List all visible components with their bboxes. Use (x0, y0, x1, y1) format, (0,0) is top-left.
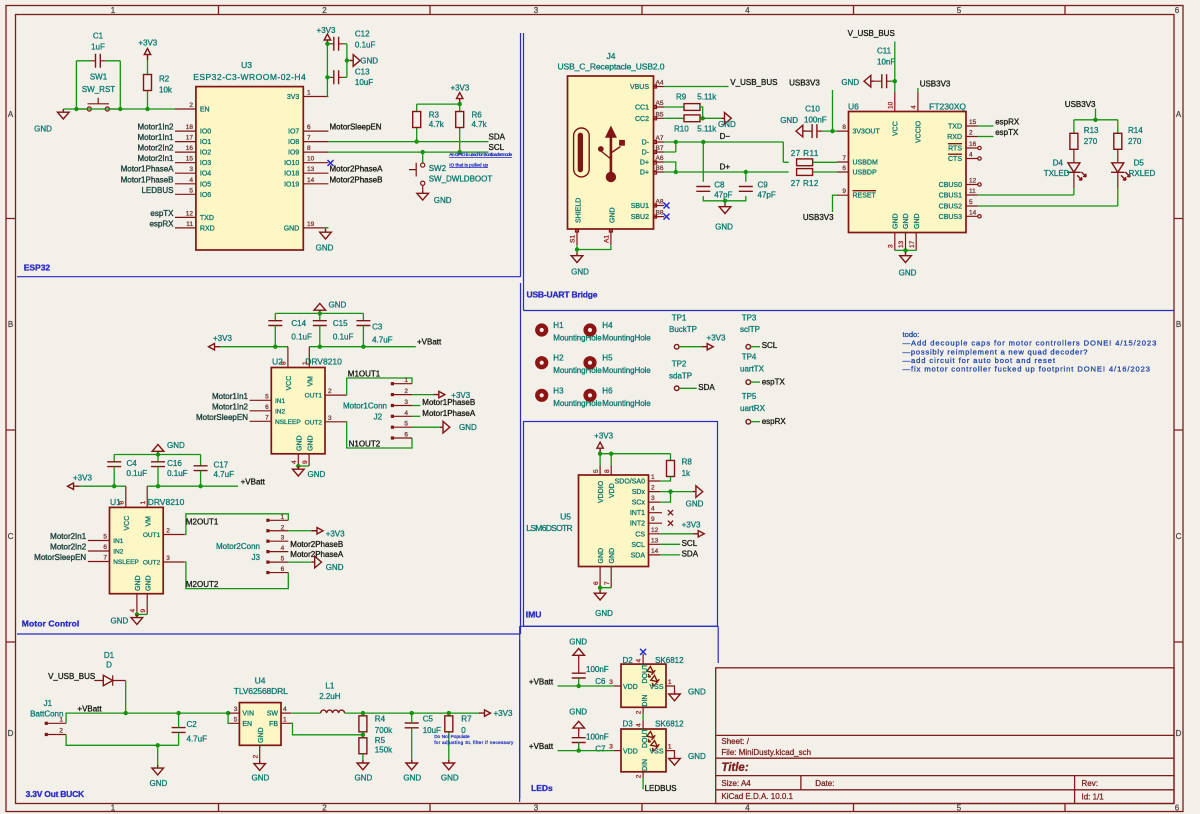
svg-text:2: 2 (281, 524, 285, 531)
junction (447, 711, 451, 715)
svg-text:10uF: 10uF (355, 78, 373, 87)
switch SW1 SW_RST (76, 73, 120, 112)
svg-text:VM: VM (308, 376, 315, 387)
svg-text:IN1: IN1 (113, 538, 124, 545)
svg-text:Motor2In1: Motor2In1 (50, 532, 87, 541)
svg-text:R9: R9 (676, 93, 687, 102)
mounting hole H5 (583, 356, 596, 369)
svg-text:16: 16 (969, 141, 977, 148)
ground U5 (594, 590, 606, 600)
svg-text:19: 19 (307, 221, 315, 228)
svg-text:SDA: SDA (698, 383, 715, 392)
svg-text:J4: J4 (607, 51, 616, 61)
mounting hole H6 (583, 389, 596, 402)
svg-text:C: C (8, 532, 14, 541)
LED D5 RXLED (1111, 149, 1155, 206)
svg-text:2: 2 (636, 710, 643, 714)
svg-text:+VBatt: +VBatt (529, 678, 554, 687)
svg-text:D−: D− (720, 132, 731, 141)
capacitor C7 100nF (572, 731, 609, 753)
junction (458, 102, 462, 106)
svg-text:GND: GND (252, 773, 270, 782)
no-connect INT2 (668, 521, 673, 526)
svg-text:J1: J1 (44, 699, 53, 708)
resistor R7 0 (445, 713, 472, 760)
svg-text:D-: D- (642, 140, 650, 147)
svg-text:R2: R2 (159, 75, 170, 84)
wire +3V3 output rail (345, 712, 479, 714)
U2 bottom pins (298, 454, 309, 466)
svg-text:DRV8210: DRV8210 (148, 497, 185, 507)
svg-text:INT1: INT1 (630, 510, 645, 517)
svg-text:R4: R4 (375, 714, 386, 723)
svg-text:+3V3: +3V3 (326, 530, 345, 539)
svg-text:3.3V Out BUCK: 3.3V Out BUCK (26, 789, 85, 799)
svg-text:espTX: espTX (995, 128, 1019, 137)
wire USB3V3 VCCIO (917, 88, 919, 92)
test point TP4 uartTX (740, 353, 765, 385)
svg-text:Motor1In1: Motor1In1 (137, 133, 174, 142)
svg-text:VCC: VCC (124, 516, 131, 531)
svg-text:GND: GND (111, 617, 129, 626)
junction (701, 116, 705, 120)
U4 bottom pin GND (259, 745, 261, 760)
junction (893, 79, 897, 83)
wire U5 gnd (600, 588, 611, 590)
resistor R14 270 (1114, 126, 1143, 149)
svg-text:OUT2: OUT2 (143, 560, 161, 567)
IC U3 ESP32-C3-WROOM-02-H4 (193, 60, 306, 250)
ground D3 (669, 755, 681, 765)
capacitor C16 0.1uF (151, 459, 188, 486)
LED D4 TXLED (1044, 149, 1086, 195)
svg-text:IO18: IO18 (284, 171, 299, 178)
svg-text:SCL: SCL (489, 143, 505, 152)
svg-text:MountingHole: MountingHole (553, 366, 602, 375)
svg-text:1: 1 (281, 514, 285, 521)
svg-text:GND: GND (258, 727, 265, 743)
svg-text:IN2: IN2 (275, 408, 286, 415)
svg-text:5: 5 (189, 187, 193, 194)
resistor R8 1k (660, 458, 692, 481)
svg-text:H6: H6 (602, 386, 613, 395)
svg-text:Motor2Conn: Motor2Conn (216, 542, 260, 551)
ground SDx (693, 486, 703, 498)
svg-text:4: 4 (911, 105, 918, 109)
svg-text:27 R11: 27 R11 (791, 149, 819, 158)
svg-text:Motor2In2: Motor2In2 (137, 144, 174, 153)
junction (674, 170, 678, 174)
svg-text:FB: FB (269, 721, 278, 728)
svg-text:GND: GND (841, 78, 859, 87)
IC U4 TLV62568DRL (234, 676, 288, 746)
svg-text:TP1: TP1 (672, 314, 687, 323)
svg-text:1: 1 (111, 804, 116, 813)
wire CBUS1 to D4 (978, 194, 1074, 196)
junction (318, 345, 322, 349)
svg-text:GND: GND (595, 609, 613, 618)
svg-text:VDD: VDD (623, 749, 638, 756)
J4 pin names (630, 84, 650, 221)
D2 VSS pin (666, 686, 675, 691)
U1 bottom pins (137, 594, 147, 615)
wire CC2 (664, 117, 684, 119)
wire gnd rail U1 (114, 455, 200, 466)
svg-text:1uF: 1uF (91, 43, 105, 52)
svg-text:DOUT: DOUT (642, 727, 649, 748)
svg-text:C17: C17 (214, 461, 229, 470)
svg-text:1: 1 (140, 501, 147, 505)
U6 right pins (966, 126, 978, 216)
svg-text:1: 1 (404, 377, 408, 384)
svg-text:SW_DWLDBOOT: SW_DWLDBOOT (429, 174, 493, 183)
svg-text:5: 5 (404, 421, 408, 428)
svg-text:9: 9 (651, 516, 655, 523)
svg-text:TXD: TXD (948, 124, 962, 131)
svg-text:10: 10 (307, 156, 315, 163)
svg-text:GND: GND (598, 548, 605, 564)
svg-text:10nF: 10nF (877, 58, 895, 67)
wire D1 to rail (125, 681, 127, 714)
svg-text:R3: R3 (429, 111, 440, 120)
svg-text:Rev:: Rev: (1082, 779, 1098, 788)
svg-text:Motor Control: Motor Control (22, 619, 80, 629)
svg-text:ESP32: ESP32 (24, 263, 51, 273)
svg-text:D+: D+ (720, 163, 731, 172)
svg-text:VIN: VIN (242, 711, 254, 718)
svg-text:13: 13 (307, 166, 315, 173)
junction (198, 484, 202, 488)
svg-text:+3V3: +3V3 (73, 473, 92, 482)
svg-text:1k: 1k (682, 469, 691, 478)
svg-text:14: 14 (651, 548, 659, 555)
svg-text:GND: GND (167, 441, 185, 450)
svg-text:2: 2 (322, 804, 327, 813)
svg-text:espRX: espRX (762, 417, 787, 426)
svg-text:14: 14 (969, 209, 977, 216)
ground U1 (131, 614, 143, 624)
svg-text:12: 12 (651, 527, 659, 534)
junction (421, 150, 425, 154)
junction (135, 612, 139, 616)
svg-text:TP3: TP3 (742, 314, 757, 323)
svg-text:2: 2 (189, 102, 193, 109)
svg-text:todo:: todo: (903, 330, 920, 339)
svg-text:6: 6 (1175, 804, 1180, 813)
svg-text:EN: EN (200, 107, 210, 114)
svg-text:SHIELD: SHIELD (576, 198, 583, 223)
svg-text:4: 4 (745, 804, 750, 813)
U2 left pins (250, 400, 272, 421)
svg-text:6: 6 (307, 124, 311, 131)
U1 left pins (88, 541, 110, 562)
svg-text:uartTX: uartTX (740, 365, 765, 374)
wire LEDBUS (642, 778, 644, 790)
wire M2OUT1 (184, 514, 288, 535)
wire D2 DIN to D3 DOUT (642, 714, 644, 721)
ground C7 (573, 721, 585, 731)
svg-text:SW2: SW2 (429, 164, 447, 173)
capacitor C17 4.7uF (194, 461, 234, 487)
wire gnd rail (275, 313, 363, 320)
svg-text:8: 8 (604, 469, 611, 473)
svg-text:RXLED: RXLED (1129, 169, 1156, 178)
junction (345, 58, 349, 62)
svg-text:C6: C6 (595, 677, 606, 686)
junction (156, 743, 160, 747)
svg-text:2: 2 (636, 774, 643, 778)
wire J3 pin2 +3V3 (288, 530, 311, 532)
connector J1 BattConn (30, 699, 66, 736)
svg-text:9: 9 (842, 188, 846, 195)
svg-text:CTS: CTS (948, 156, 962, 163)
svg-text:4: 4 (969, 152, 973, 159)
section box 3.3V Out BUCK (519, 640, 521, 802)
ground C5 (406, 760, 418, 770)
ground C6 (573, 649, 585, 659)
svg-text:R14: R14 (1128, 126, 1143, 135)
svg-text:4: 4 (291, 460, 298, 464)
svg-text:RTS: RTS (948, 146, 962, 153)
note tiny blue text (449, 152, 512, 167)
wire SDA (660, 554, 680, 556)
wire J2 pin3 (412, 405, 420, 407)
svg-text:5: 5 (969, 199, 973, 206)
ground C11 (864, 75, 874, 87)
svg-text:SW1: SW1 (90, 73, 108, 82)
power +3V3 (209, 344, 221, 350)
wire CC1 (664, 106, 684, 108)
note tiny blue text (434, 734, 514, 745)
wire EN net (63, 108, 175, 110)
svg-text:17: 17 (186, 135, 194, 142)
svg-text:5.11k: 5.11k (697, 93, 717, 102)
wire pullup rail (417, 104, 460, 152)
svg-text:H2: H2 (553, 354, 564, 363)
svg-text:IO10: IO10 (284, 160, 299, 167)
no-connect IO10 (328, 160, 334, 166)
svg-text:IO8: IO8 (288, 139, 299, 146)
U4 right pins (281, 713, 291, 723)
junction (325, 42, 329, 46)
svg-text:KiCad E.D.A. 10.0.1: KiCad E.D.A. 10.0.1 (721, 792, 793, 801)
svg-text:GND: GND (610, 207, 617, 223)
junction (903, 248, 907, 252)
svg-text:GND: GND (441, 773, 459, 782)
svg-text:7: 7 (604, 581, 611, 585)
svg-text:R5: R5 (375, 736, 386, 745)
U5 right pins (649, 481, 663, 555)
svg-text:OUT1: OUT1 (305, 393, 323, 400)
svg-text:7: 7 (842, 155, 846, 162)
wire +VBatt to VM U1 (147, 485, 238, 487)
ground R7 (443, 760, 455, 770)
svg-text:MountingHole: MountingHole (602, 366, 651, 375)
svg-text:IO0: IO0 (200, 129, 211, 136)
svg-text:Motor1PhaseB: Motor1PhaseB (121, 175, 174, 184)
svg-text:2: 2 (322, 6, 327, 15)
svg-text:C13: C13 (355, 67, 370, 76)
junction (415, 139, 419, 143)
svg-text:USB3V3: USB3V3 (789, 79, 820, 88)
svg-text:12: 12 (969, 178, 977, 185)
svg-text:TXD: TXD (200, 215, 214, 222)
power +3V3 (597, 442, 603, 454)
junction (325, 75, 329, 79)
svg-text:C12: C12 (355, 30, 370, 39)
svg-text:CC1: CC1 (635, 105, 649, 112)
svg-text:B: B (8, 320, 13, 329)
svg-text:LEDBUS: LEDBUS (645, 784, 677, 793)
svg-text:3: 3 (651, 495, 655, 502)
wire espRX (978, 125, 994, 127)
svg-text:2.2uH: 2.2uH (319, 692, 341, 701)
D3 DIN pin (642, 772, 644, 778)
svg-text:C2: C2 (187, 720, 198, 729)
svg-text:3: 3 (534, 6, 539, 15)
resistor R4 700k (359, 713, 393, 735)
connector J3 Motor2Conn (216, 514, 288, 574)
svg-text:VM: VM (146, 516, 153, 527)
svg-text:OUT1: OUT1 (143, 532, 161, 539)
svg-text:GND: GND (686, 500, 704, 509)
svg-text:R10: R10 (674, 125, 689, 134)
wire M2OUT2 (184, 562, 288, 589)
junction (577, 684, 581, 688)
svg-text:USB_C_Receptacle_USB2.0: USB_C_Receptacle_USB2.0 (558, 62, 665, 72)
svg-text:27 R12: 27 R12 (791, 179, 819, 188)
capacitor C2 4.7uF (172, 713, 207, 745)
wire espTX (978, 136, 994, 138)
svg-text:CC2: CC2 (635, 116, 649, 123)
svg-text:VBUS: VBUS (630, 84, 649, 91)
svg-text:47pF: 47pF (714, 190, 732, 199)
junction (575, 247, 579, 251)
svg-text:47pF: 47pF (758, 190, 776, 199)
svg-text:10k: 10k (159, 86, 173, 95)
resistor R11 27 (791, 149, 837, 166)
wire C1/SW1 loop (76, 61, 120, 109)
svg-text:Motor1Conn: Motor1Conn (343, 402, 387, 411)
svg-text:4.7uF: 4.7uF (187, 735, 208, 744)
wire J2 pin2 +3V3 (412, 394, 433, 396)
svg-text:C4: C4 (127, 459, 138, 468)
IC U5 LSM6DSOTR (526, 475, 648, 567)
svg-text:GND: GND (715, 223, 733, 232)
svg-text:GND: GND (329, 301, 347, 310)
svg-text:USBDM: USBDM (853, 160, 878, 167)
svg-text:7: 7 (103, 555, 107, 562)
svg-text:4: 4 (636, 659, 643, 663)
svg-text:GND: GND (146, 575, 153, 591)
svg-text:Motor2In2: Motor2In2 (50, 543, 87, 552)
wire J2 pin5 gnd (412, 426, 440, 428)
svg-text:700k: 700k (375, 726, 393, 735)
section box IMU (524, 422, 718, 627)
svg-text:D+: D+ (640, 160, 649, 167)
junction (118, 107, 122, 111)
svg-text:TXLED: TXLED (1044, 169, 1070, 178)
svg-text:MountingHole: MountingHole (553, 399, 602, 408)
svg-text:C9: C9 (758, 180, 769, 189)
svg-text:GND: GND (34, 125, 52, 134)
svg-text:4.7k: 4.7k (429, 120, 445, 129)
capacitor C5 10uF (405, 713, 441, 760)
capacitor C6 100nF (572, 659, 609, 687)
svg-text:FT230XQ: FT230XQ (929, 102, 966, 112)
section box USB-UART Bridge (524, 33, 1175, 311)
D3 VDD pin (614, 750, 621, 752)
no-connect SBU2 (664, 214, 670, 220)
svg-text:+VBatt: +VBatt (417, 338, 442, 347)
svg-text:Motor2PhaseB: Motor2PhaseB (290, 540, 343, 549)
svg-text:SDA: SDA (489, 132, 506, 141)
junction (273, 345, 277, 349)
svg-text:3: 3 (404, 399, 408, 406)
svg-text:D2: D2 (623, 656, 634, 665)
junction (145, 107, 149, 111)
ground (350, 55, 360, 67)
svg-text:Size: A4: Size: A4 (721, 779, 751, 788)
J4 bottom pins S1 A1 (577, 229, 611, 245)
IC U6 FT230XQ (848, 102, 966, 233)
svg-text:RESET: RESET (853, 193, 877, 200)
capacitor C1 (91, 32, 106, 68)
svg-text:9: 9 (302, 460, 309, 464)
ground C10 (796, 125, 806, 137)
svg-text:D: D (8, 729, 14, 738)
mounting hole H1 (535, 323, 548, 336)
junction (226, 711, 230, 715)
svg-text:5: 5 (957, 6, 962, 15)
svg-text:SBU1: SBU1 (631, 203, 649, 210)
svg-text:C16: C16 (167, 459, 182, 468)
junction (744, 170, 748, 174)
svg-text:Motor1PhaseA: Motor1PhaseA (422, 409, 476, 418)
svg-text:H1: H1 (553, 321, 564, 330)
no-connect INT1 (668, 510, 673, 515)
svg-text:CBUS2: CBUS2 (939, 204, 962, 211)
svg-text:Motor1In2: Motor1In2 (212, 402, 249, 411)
svg-text:R8: R8 (682, 458, 693, 467)
svg-text:TP2: TP2 (672, 360, 687, 369)
svg-text:SDA: SDA (682, 549, 699, 558)
section box LEDs (520, 626, 719, 798)
svg-text:NSLEEP: NSLEEP (275, 419, 301, 426)
svg-text:+VBatt: +VBatt (529, 742, 554, 751)
D2 DIN pin (642, 707, 644, 713)
test point TP1 BuckTP (669, 314, 702, 350)
junction (609, 452, 613, 456)
wire R9/R10 join (700, 107, 721, 118)
svg-text:V_USB_BUS: V_USB_BUS (848, 29, 895, 38)
capacitor C11 10nF (874, 47, 895, 89)
U4 left pins (229, 713, 239, 723)
wire +VBatt to D3 (558, 750, 614, 752)
junction (577, 748, 581, 752)
wire shield gnd (577, 245, 611, 252)
svg-text:4: 4 (130, 609, 137, 613)
svg-text:Motor2In1: Motor2In1 (137, 154, 174, 163)
svg-text:11: 11 (186, 221, 193, 228)
junction (361, 345, 365, 349)
svg-text:Motor2PhaseB: Motor2PhaseB (330, 175, 383, 184)
wire U1 gnd (137, 613, 147, 615)
no-connect SBU1 (664, 203, 670, 209)
svg-text:A: A (8, 110, 14, 119)
svg-text:100nF: 100nF (586, 732, 609, 741)
D2 VDD pin (614, 685, 621, 687)
